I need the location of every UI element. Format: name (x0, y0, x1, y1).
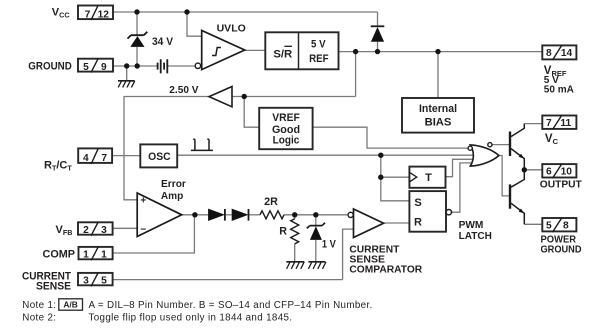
svg-text:−: − (140, 224, 146, 235)
svg-text:1 V: 1 V (322, 238, 336, 250)
ground symbol (near GROUND pin) (118, 81, 135, 88)
svg-text:50 mA: 50 mA (544, 84, 574, 95)
junction VREF-buffer (353, 49, 358, 54)
wire buffer output to error amp (124, 97, 209, 200)
wire Q2 emitter (524, 223, 542, 225)
junction VREF-diode (375, 49, 380, 54)
wire UVLO output (245, 49, 266, 51)
svg-text:5: 5 (546, 220, 552, 231)
svg-text:1: 1 (83, 250, 89, 261)
svg-text:T: T (425, 172, 432, 184)
svg-text:UVLO: UVLO (217, 24, 246, 35)
junction buffer-goodlogic (242, 94, 247, 99)
battery offset symbol (158, 59, 168, 73)
svg-text:VREF: VREF (272, 112, 300, 124)
wire COMP to error amp output (113, 215, 195, 253)
wire ground symbol drop (126, 66, 128, 80)
op-amp Error Amp (137, 193, 182, 237)
wire UVLO upper input (187, 12, 202, 36)
pin box Vcc 7/12 (78, 5, 113, 20)
block S/R and 5V REF (265, 32, 338, 69)
wire current sense rail (113, 229, 354, 280)
junction VREF-bias (435, 49, 440, 54)
diode to Vcc (top) (371, 26, 385, 42)
wire resistor R stubs (294, 215, 296, 262)
junction T-S (378, 175, 383, 180)
junction clock-T (378, 153, 383, 158)
junction Vcc-UVLO (184, 9, 189, 14)
svg-text:34 V: 34 V (152, 36, 173, 48)
svg-text:Note 1:: Note 1: (22, 300, 56, 311)
svg-text:GROUND: GROUND (28, 60, 72, 72)
junction output node (522, 167, 527, 172)
wire OSC clock rail (177, 154, 474, 156)
svg-text:2R: 2R (264, 196, 278, 208)
svg-text:4: 4 (83, 153, 89, 164)
svg-text:3: 3 (83, 276, 89, 287)
wire VREF rail (339, 51, 542, 53)
junction ground-sym (124, 63, 129, 68)
buffer 2.50V (left pointing) (209, 87, 232, 107)
svg-text:12: 12 (98, 9, 110, 20)
wire ground rail (113, 65, 158, 67)
wire top drive (492, 144, 509, 146)
svg-text:9: 9 (101, 62, 107, 73)
svg-text:3: 3 (101, 225, 107, 236)
wire clock to T and S inputs (381, 155, 410, 201)
svg-text:5: 5 (83, 62, 89, 73)
OR gate output stage (468, 143, 499, 167)
block OSC (140, 144, 177, 167)
wire internal bias drop (437, 52, 439, 98)
svg-text:7: 7 (546, 118, 552, 129)
svg-text:7: 7 (101, 153, 107, 164)
transistor Q1 (top) (510, 132, 524, 159)
svg-text:2: 2 (83, 225, 89, 236)
pin box RT/CT 4/7 (78, 148, 112, 164)
wire output node (524, 169, 542, 171)
svg-text:BIAS: BIAS (425, 116, 452, 128)
wire zener branch top (136, 12, 138, 35)
svg-text:7: 7 (85, 9, 91, 20)
svg-text:S: S (414, 197, 421, 209)
junction node-zener1V (313, 212, 318, 217)
svg-text:A = DIL–8 Pin Number. B = SO–1: A = DIL–8 Pin Number. B = SO–14 and CFP–… (89, 300, 373, 311)
junction EA-COMP (192, 212, 197, 217)
wire RT/CT to OSC (112, 155, 140, 157)
PWM latch S/R (409, 191, 451, 232)
wire error amp output (182, 214, 208, 216)
svg-text:11: 11 (560, 118, 571, 129)
diode D2 (232, 209, 249, 221)
diode D1 (208, 209, 225, 221)
svg-text:6: 6 (546, 166, 552, 177)
wire bottom drive (499, 156, 509, 196)
svg-text:10: 10 (561, 166, 573, 177)
wire Q1 emitter (511, 149, 524, 170)
junction ground-zener (135, 63, 140, 68)
ground symbol (under R) (286, 262, 304, 269)
op-amp UVLO comparator (195, 31, 245, 70)
svg-text:REF: REF (309, 53, 329, 65)
svg-text:R: R (414, 217, 422, 229)
svg-text:GROUND: GROUND (541, 245, 582, 256)
svg-text:OUTPUT: OUTPUT (540, 179, 582, 190)
svg-text:Note 2:: Note 2: (22, 313, 56, 324)
zener diode 34V (128, 32, 148, 47)
svg-text:2.50 V: 2.50 V (169, 84, 198, 96)
junction Vcc-zener (134, 9, 139, 14)
svg-text:SENSE: SENSE (36, 281, 71, 293)
ground symbol (under zener) (308, 262, 326, 269)
pin box VREF 8/14 (542, 45, 576, 60)
block VREF Good Logic (259, 108, 312, 149)
svg-text:S/R: S/R (273, 49, 292, 61)
svg-text:8: 8 (563, 220, 569, 231)
zener diode 1V (307, 223, 325, 240)
wire diode D1 to D2 (225, 214, 232, 216)
svg-text:OSC: OSC (148, 151, 171, 163)
wire VREF to 2.50V buffer (232, 52, 356, 97)
wire comparator output to R (384, 222, 410, 224)
wire top diode branch (377, 12, 379, 52)
wire D2 to 2R (249, 214, 260, 216)
pin box GROUND 5/9 (78, 58, 113, 72)
pin box COMP 1/1 (79, 247, 113, 261)
svg-text:8: 8 (546, 48, 552, 59)
svg-text:Toggle flip flop used only in: Toggle flip flop used only in 1844 and 1… (89, 313, 293, 324)
wire VFB input (113, 227, 137, 229)
wire zener branch bottom (136, 47, 138, 66)
pin box OUTPUT 6/10 (542, 164, 576, 179)
wire Q1 collector (524, 123, 542, 125)
block Internal BIAS (402, 98, 474, 133)
wire T output to OR gate (446, 159, 474, 176)
wire 2R to comparator bubble (284, 214, 347, 216)
svg-text:COMPARATOR: COMPARATOR (349, 265, 422, 276)
svg-text:R: R (279, 226, 287, 238)
svg-text:LATCH: LATCH (459, 231, 492, 242)
svg-text:Logic: Logic (273, 135, 300, 147)
svg-text:A/B: A/B (63, 300, 77, 310)
svg-text:Amp: Amp (161, 191, 183, 202)
svg-text:14: 14 (561, 48, 573, 59)
pin box VC 7/11 (542, 115, 576, 130)
resistor 2R (260, 211, 284, 219)
pin box POWER GROUND 5/8 (542, 218, 576, 233)
svg-text:COMP: COMP (43, 248, 76, 260)
wire Q2 collector (511, 170, 524, 187)
clock pulses glyph (191, 139, 213, 150)
wire VREF good logic output to OR gate (313, 127, 468, 148)
junction node-R (292, 212, 297, 217)
op-amp current sense comparator (348, 209, 384, 238)
svg-text:Internal: Internal (419, 103, 457, 115)
svg-text:5 V: 5 V (311, 39, 326, 51)
svg-text:PWM: PWM (459, 220, 484, 231)
A/B reference box (59, 299, 83, 310)
wire zener 1V stubs (315, 215, 317, 262)
resistor R (vertical) (291, 219, 299, 244)
wire Vcc rail (113, 11, 378, 13)
pin box CURRENT SENSE 3/5 (78, 273, 113, 287)
transistor Q2 (bottom) (510, 184, 524, 213)
wire VREF good logic input (244, 97, 259, 128)
svg-text:Error: Error (161, 179, 186, 190)
svg-text:+: + (140, 196, 146, 207)
svg-text:1: 1 (101, 250, 107, 261)
pin box VFB 2/3 (78, 222, 113, 236)
wire latch output to OR gate (452, 163, 472, 212)
wire battery to UVLO bubble (167, 65, 195, 67)
toggle flip flop T (409, 167, 445, 188)
svg-text:5: 5 (101, 276, 107, 287)
